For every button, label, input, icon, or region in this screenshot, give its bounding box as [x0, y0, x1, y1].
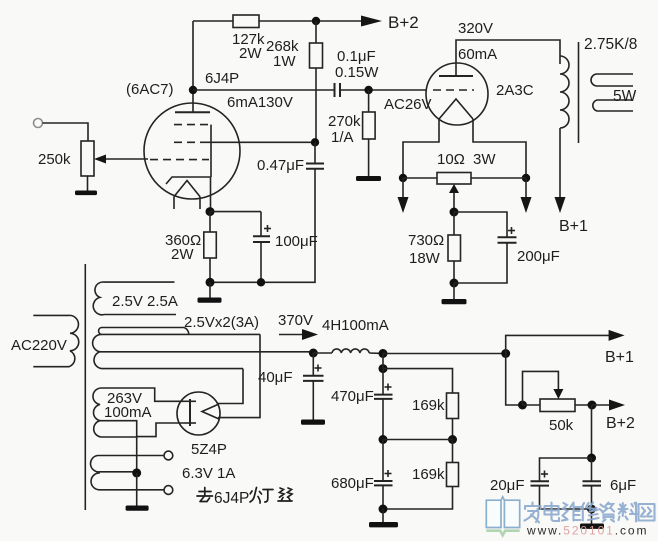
wire 270k to ground — [368, 139, 370, 177]
char jia — [525, 503, 541, 523]
tube 6J4P envelope — [144, 103, 240, 199]
svg-text:6J4P: 6J4P — [205, 70, 239, 87]
resistor 169k no1 — [447, 393, 459, 419]
wire 50k right — [575, 404, 592, 406]
capacitor 470uF — [382, 369, 384, 395]
svg-text:169k: 169k — [412, 397, 445, 414]
char wei — [562, 503, 581, 521]
svg-text:2A3C: 2A3C — [496, 82, 534, 99]
char zi — [600, 503, 615, 522]
wire cathode lead down — [210, 177, 212, 212]
heater leg right — [199, 197, 201, 209]
svg-text:50k: 50k — [549, 417, 574, 434]
wire ground stem 730 — [453, 283, 455, 300]
OPT secondary loop 2 — [593, 100, 633, 111]
wire 6uF bottom — [591, 486, 593, 509]
wire to hum pot right — [471, 177, 526, 179]
node wiper/730 — [450, 208, 459, 217]
svg-text:680μF: 680μF — [331, 475, 374, 492]
wire 40uF to ground — [312, 381, 314, 420]
svg-text:0.15W: 0.15W — [335, 64, 379, 81]
wire to 270k — [368, 90, 370, 112]
ground (transformer CT) — [126, 506, 149, 511]
wire ground stem cathode — [209, 282, 211, 298]
OPT secondary loop 1 — [591, 74, 633, 86]
wire 263V mid tap — [100, 420, 138, 422]
wire 680uF to bottom node — [382, 485, 384, 509]
resistor 360ohm — [204, 232, 217, 258]
ground (680uF) — [369, 522, 398, 527]
node 360ohm bottom — [206, 278, 215, 287]
wire 360ohm to ground node — [209, 258, 211, 282]
char liao — [619, 503, 638, 522]
wire 263V top to 5Z4P plate 1 — [101, 388, 184, 401]
potentiometer 10ohm 3W hum balance — [437, 173, 471, 185]
OPT primary winding — [560, 56, 569, 128]
6J4P plate — [175, 111, 210, 113]
wire coupling cap to 2A3 grid — [340, 89, 427, 91]
wire cathode to 360ohm — [209, 212, 211, 232]
ground (6uF) — [580, 524, 604, 529]
label to 6J4P heater — [197, 488, 213, 502]
arrow B+1 — [609, 330, 625, 341]
svg-text:250k: 250k — [38, 151, 71, 168]
wire filament left leg — [403, 119, 439, 178]
node 730 bottom — [450, 279, 459, 288]
svg-text:4H100mA: 4H100mA — [322, 317, 389, 334]
svg-text:6.3V 1A: 6.3V 1A — [182, 465, 235, 482]
node 20uF branch — [587, 454, 596, 463]
wire staircase to 5Z4P plate 2 — [138, 423, 185, 437]
wire 263V centre line down — [136, 421, 138, 473]
svg-text:200μF: 200μF — [517, 248, 560, 265]
wire 20uF bottom — [540, 486, 592, 509]
node bottom right — [587, 505, 596, 514]
node 50k left — [518, 401, 527, 410]
arrow B+1 OPT — [555, 197, 566, 213]
node B+2 — [588, 401, 597, 410]
node mid divider — [448, 435, 457, 444]
svg-text:2W: 2W — [239, 45, 262, 62]
winding 263V 100mA — [93, 388, 101, 437]
arrow filament supply left — [402, 178, 404, 199]
winding 2.5V 2.5A — [93, 282, 176, 315]
OPT core — [578, 42, 580, 143]
potentiometer 50k — [540, 399, 575, 412]
svg-text:www.520101.com: www.520101.com — [526, 524, 648, 538]
node 100uF bottom — [257, 278, 265, 286]
svg-text:2W: 2W — [171, 246, 194, 263]
wire pot wiper to grid — [104, 158, 148, 160]
svg-text:2.75K/8: 2.75K/8 — [584, 36, 637, 53]
heater leg left — [173, 197, 175, 209]
wire 169k2 bottom row — [383, 487, 453, 510]
terminal 6.3V upper — [164, 451, 173, 460]
node filament left — [399, 174, 407, 182]
wire 268k to screen node — [315, 68, 317, 142]
wire filament upper lead — [218, 403, 219, 406]
node plate/coupling junction — [189, 86, 197, 94]
ground (40uF) — [301, 420, 325, 425]
svg-text:2.5V 2.5A: 2.5V 2.5A — [112, 293, 178, 310]
top rail wire — [193, 20, 233, 22]
wire node to 730 — [453, 212, 455, 235]
wire to 20uF — [540, 458, 592, 481]
wire 169k1 to mid node — [452, 419, 454, 440]
tube 2A3C envelope — [426, 63, 488, 125]
svg-text:2.5Vx2(3A): 2.5Vx2(3A) — [184, 314, 259, 331]
svg-text:1/A: 1/A — [331, 129, 354, 146]
wire 50k left — [523, 404, 541, 406]
wire node to 200uF bottom — [454, 243, 507, 283]
resistor 169k no2 — [452, 440, 454, 463]
power transformer core — [84, 264, 86, 510]
capacitor 20uF — [531, 480, 550, 482]
char dian — [545, 503, 560, 522]
capacitor 0.47uF — [314, 142, 316, 163]
ground (250k) — [75, 191, 97, 196]
wire input to pot — [43, 123, 89, 141]
svg-text:AC26V: AC26V — [384, 96, 432, 113]
wire CT to ground — [136, 473, 138, 506]
watermark site name (hand-drawn CJK strokes) — [525, 503, 655, 523]
AC220V primary winding — [33, 315, 78, 366]
wire suppressor to cathode — [210, 125, 212, 177]
6J4P screen grid (dashed) — [174, 141, 206, 143]
svg-text:(6AC7): (6AC7) — [126, 81, 174, 98]
svg-text:40μF: 40μF — [258, 369, 293, 386]
winding 6.3V 1A — [91, 456, 164, 490]
node screen/0.47 junction — [311, 138, 319, 146]
svg-text:6μF: 6μF — [610, 477, 636, 494]
arrow B+2 — [592, 404, 610, 406]
svg-text:0.47μF: 0.47μF — [257, 157, 304, 174]
svg-text:320V: 320V — [458, 20, 493, 37]
tube 5Z4P envelope — [177, 392, 220, 435]
2A3C plate — [439, 75, 473, 77]
wire 263V bottom lead — [101, 436, 138, 438]
svg-text:AC220V: AC220V — [11, 337, 67, 354]
capacitor 100uF — [260, 212, 262, 236]
pot 10ohm wiper arrow — [449, 184, 459, 193]
wire 730 bottom to node — [453, 261, 455, 283]
pot wiper arrow — [94, 155, 106, 164]
svg-text:270k: 270k — [328, 113, 361, 130]
capacitor 6uF — [591, 458, 593, 481]
6J4P control grid (dashed) — [150, 159, 209, 161]
svg-text:B+2: B+2 — [388, 13, 419, 32]
6J4P cathode — [166, 177, 211, 184]
wire node to 200uF — [454, 212, 507, 237]
5Z4P filament — [202, 404, 219, 419]
svg-text:169k: 169k — [412, 466, 445, 483]
wire plate node to coupling cap — [193, 89, 334, 91]
capacitor 40uF — [312, 353, 314, 376]
node 470/680 mid — [379, 435, 388, 444]
wire filament right leg — [473, 119, 526, 178]
char si — [278, 488, 292, 501]
capacitor 0.1uF coupling — [334, 83, 336, 97]
wire OPT primary to B+1 arrow — [559, 128, 561, 198]
wire screen grid out to node — [206, 141, 315, 143]
svg-text:18W: 18W — [409, 250, 441, 267]
main B+ rail wire — [383, 353, 506, 355]
svg-text:B+1: B+1 — [559, 218, 588, 235]
svg-text:5W: 5W — [613, 88, 637, 105]
wire 127k to B+2 arrow — [259, 20, 364, 22]
potentiometer 250k — [81, 141, 94, 176]
wire top rail to 268k — [315, 21, 317, 43]
resistor 127k — [233, 15, 259, 28]
wire cathode node to 100uF — [210, 211, 261, 213]
svg-text:5Z4P: 5Z4P — [191, 441, 227, 458]
svg-text:470μF: 470μF — [331, 388, 374, 405]
svg-text:0.1μF: 0.1μF — [337, 48, 376, 65]
node 6.3V centre tap — [132, 468, 141, 477]
wire winding top to 5Z4P filament lower — [218, 334, 260, 417]
arrow filament supply right — [525, 178, 527, 199]
370V arrow — [279, 334, 306, 336]
input terminal J1 — [34, 119, 43, 128]
ground (270k) — [356, 176, 381, 181]
50k wiper loop — [523, 371, 559, 405]
2A3C grid (dashed) — [433, 89, 474, 91]
wire top to 169k no1 — [383, 369, 453, 393]
wire 0.47uF to cathode row — [210, 169, 315, 282]
wire to B+1 arrow — [506, 335, 609, 353]
wire down to 50k — [506, 354, 523, 406]
node grid/270k — [364, 86, 372, 94]
terminal 6.3V lower — [164, 486, 173, 495]
node choke right — [379, 349, 388, 358]
svg-text:20μF: 20μF — [490, 477, 525, 494]
wire ground stem — [382, 509, 384, 523]
capacitor 200uF — [498, 236, 517, 238]
wire 470uF to mid node — [382, 399, 384, 440]
ground (cathode) — [198, 298, 222, 303]
svg-text:100mA: 100mA — [104, 404, 152, 421]
wire plate to OPT — [456, 40, 560, 76]
char wang — [639, 504, 655, 521]
char xiu — [581, 503, 599, 521]
svg-text:1W: 1W — [273, 53, 296, 70]
node filament right — [522, 174, 530, 182]
capacitor 680uF — [382, 440, 384, 481]
svg-text:60mA: 60mA — [458, 46, 497, 63]
svg-text:3W: 3W — [473, 151, 496, 168]
wire choke to node — [369, 352, 383, 355]
node top rail — [312, 17, 320, 25]
svg-text:730Ω: 730Ω — [408, 232, 444, 249]
svg-text:B+2: B+2 — [606, 415, 635, 432]
wire mid row — [383, 439, 453, 441]
arrow B+2 top — [361, 16, 382, 27]
svg-text:6mA130V: 6mA130V — [227, 94, 293, 111]
6J4P heater — [174, 181, 200, 197]
resistor 270k — [363, 112, 376, 139]
svg-text:100μF: 100μF — [275, 233, 318, 250]
choke 4H100mA — [313, 352, 332, 354]
resistor 268k — [310, 43, 323, 68]
svg-text:B+1: B+1 — [605, 349, 634, 366]
svg-text:6J4P: 6J4P — [214, 490, 249, 507]
wire pot bottom — [87, 176, 89, 191]
wire B+2 node down — [591, 405, 593, 458]
wire plate lead up to top rail — [192, 21, 194, 112]
char deng — [250, 488, 273, 504]
resistor 730ohm — [448, 235, 461, 261]
svg-text:370V: 370V — [278, 312, 313, 329]
watermark book icon — [486, 497, 519, 535]
2A3C filament — [439, 99, 473, 119]
node rectifier output / choke left — [309, 349, 318, 358]
svg-text:10Ω: 10Ω — [437, 151, 465, 168]
node bottom — [379, 505, 388, 514]
5Z4P plates bar — [189, 399, 191, 426]
node cathode — [206, 207, 215, 216]
wire to hum pot left — [403, 177, 437, 179]
ground (730) — [442, 299, 467, 304]
node 470uF top — [379, 364, 388, 373]
node B+ branch — [501, 349, 510, 358]
wire winding bottom to 5Z4P filament upper — [218, 369, 243, 404]
6J4P suppressor grid (dashed) — [174, 124, 208, 126]
wire ground stem right — [591, 509, 593, 524]
winding 2.5Vx2(3A) — [99, 328, 189, 335]
char qu — [197, 488, 213, 502]
wire 100uF bottom — [260, 242, 262, 282]
